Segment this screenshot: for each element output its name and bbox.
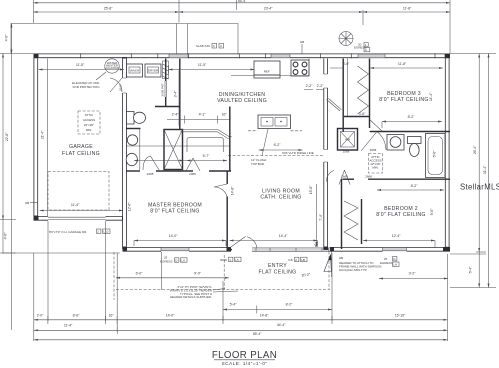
svg-text:11'-4": 11'-4" [429,92,433,101]
b2 rotated dim [430,208,434,215]
svg-text:DRYER: DRYER [148,69,159,73]
dim 9'-2" bedroom2 [379,272,448,280]
slab note tag [196,43,224,48]
svg-text:6'-2": 6'-2" [274,143,281,147]
svg-text:9'-2": 9'-2" [409,272,416,276]
wall: laundry/closet pocket wall [161,59,167,107]
window: top wall left (porch door) [169,54,188,58]
master bath: toilet [127,112,146,125]
b2 closet walls + zigzag [342,179,362,249]
pantry diagonal [327,99,342,112]
svg-text:14'-0": 14'-0" [166,314,175,318]
kitchen label [217,92,267,104]
exterior wall: top [34,53,451,58]
door hall closet 2068 [186,158,200,176]
svg-text:4'-1": 4'-1" [199,113,206,117]
door bedroom2 tag [339,170,372,185]
svg-text:L5: L5 [235,258,239,262]
svg-text:22"x30": 22"x30" [84,123,94,127]
dim row master bath y118 [167,113,230,124]
svg-text:ENTRY: ENTRY [268,263,287,269]
dim 11'-5" left [39,63,125,71]
svg-text:14'-8": 14'-8" [231,186,235,195]
svg-text:11'-8": 11'-8" [398,62,407,66]
linen closet with X [164,130,183,170]
garage door label [49,229,110,234]
svg-text:5'-7": 5'-7" [203,154,210,158]
garage room label [62,144,100,157]
svg-text:MIN.: MIN. [372,166,378,170]
svg-text:LA: LA [393,263,397,267]
sliding glass door: master [161,247,189,250]
svg-text:A: A [220,44,222,48]
svg-text:14'-0": 14'-0" [169,234,178,238]
svg-text:3'-4": 3'-4" [174,90,178,97]
attic access hall [369,154,383,174]
entry door tags [220,257,241,262]
vaulted ridge line dashed [228,131,324,156]
svg-text:VAULTED CEILING: VAULTED CEILING [217,98,267,104]
svg-text:LA: LA [181,258,185,262]
svg-text:16": 16" [222,113,228,117]
svg-text:2668 PKT: 2668 PKT [161,83,165,97]
svg-text:REF.: REF. [264,70,271,74]
svg-text:23'-4": 23'-4" [264,7,273,11]
svg-text:5'-4": 5'-4" [469,266,473,273]
svg-text:SLAB S10: SLAB S10 [196,44,210,48]
svg-text:GARAGE: GARAGE [69,144,93,150]
svg-text:55'-4": 55'-4" [238,0,247,3]
svg-text:12'-4": 12'-4" [392,234,401,238]
svg-text:8'0" FLAT CEILING: 8'0" FLAT CEILING [150,209,200,215]
svg-text:9'-6": 9'-6" [430,208,434,215]
master dim 12'-6" rotated [128,202,132,211]
svg-text:14'-4": 14'-4" [279,234,288,238]
garage attic access note [78,111,100,134]
entry label [259,263,297,276]
svg-text:11'-5": 11'-5" [198,63,207,67]
svg-text:WASH: WASH [130,69,139,73]
svg-text:ACCESS: ACCESS [83,118,95,122]
svg-text:1668: 1668 [341,175,348,179]
sliding door tags master [160,256,187,264]
svg-text:4'-0": 4'-0" [5,34,9,41]
garage front wall with OH door opening [34,217,127,219]
svg-text:CATH. CEILING: CATH. CEILING [260,195,301,201]
range / cooktop [291,60,309,76]
svg-text:HB: HB [300,40,304,44]
door bath2 from hall [361,132,386,153]
porch dashed slab edge [114,252,330,301]
svg-text:5'-4": 5'-4" [230,303,237,307]
svg-text:22'-8": 22'-8" [5,132,9,141]
svg-text:14'-8": 14'-8" [260,314,269,318]
extension lines bottom [34,221,448,341]
master bath: wall over vanity [126,128,141,130]
svg-text:LB: LB [301,258,305,262]
kitchen island with sink [258,115,291,129]
svg-text:2568: 2568 [343,150,350,154]
exterior wall: left (garage) [33,54,38,220]
exterior wall: right [445,54,450,252]
AC closet with X [338,129,358,154]
row1 overall [34,0,451,4]
front wall: master bedroom [123,247,232,252]
window tags bedroom2 [380,257,399,267]
refrigerator [254,61,280,78]
b3 closet bottom + dim [344,112,370,117]
circle-X symbol [339,31,353,45]
svg-text:12'-6": 12'-6" [128,202,132,211]
svg-text:2'-2": 2'-2" [306,84,313,88]
svg-text:26'-4": 26'-4" [473,145,477,154]
svg-text:TOP BAR: TOP BAR [251,162,265,166]
svg-text:11'-4": 11'-4" [71,203,80,207]
svg-text:55'-4": 55'-4" [253,332,262,336]
living width dim 14'-4" [230,234,318,247]
wall: bath2 top / bedroom3 bottom [370,131,450,133]
row1 [34,314,448,325]
window: bedroom2 front [383,247,407,250]
wall: garage / master bedroom [123,57,127,249]
svg-text:3'-6": 3'-6" [359,112,366,116]
svg-text:21'-4": 21'-4" [41,130,45,139]
door hall to living arc [326,171,334,182]
svg-text:8'-6": 8'-6" [73,314,80,318]
dim 11'-5" right [169,63,255,74]
svg-text:8'0"x7'0" O.H. GARAGE DR.: 8'0"x7'0" O.H. GARAGE DR. [49,230,87,234]
svg-text:MIN.: MIN. [86,128,92,132]
svg-text:L10: L10 [103,230,108,234]
svg-text:11'-8": 11'-8" [403,7,412,11]
svg-text:4'-6": 4'-6" [4,232,8,239]
svg-text:FOR PROTECTION: FOR PROTECTION [73,85,100,89]
svg-text:FLAT CEILING: FLAT CEILING [259,269,297,275]
b3 closet east wall [369,59,371,129]
master bedroom label [148,203,202,215]
front wall: bedroom2 [330,247,450,252]
svg-text:6X6 VLTD RIDGE LINE: 6X6 VLTD RIDGE LINE [282,151,313,155]
door master bath 2668 [143,156,159,176]
row2 segments [34,0,451,25]
row2 [34,323,448,334]
vanity b2 [387,135,404,151]
svg-text:6'-0": 6'-0" [136,272,143,276]
wall: hall top [155,106,180,108]
svg-text:A/H: A/H [345,138,350,142]
svg-text:31'-4": 31'-4" [483,165,487,174]
garage depth dim line 21'-4" [41,59,48,217]
hatched chase [163,61,169,79]
svg-text:HUCQ412-SDS TYP.: HUCQ412-SDS TYP. [339,268,367,272]
svg-text:2068: 2068 [189,172,196,176]
row3 overall [34,332,448,341]
front wall: entry (header) [229,243,330,251]
island dim 6'-2" [259,143,303,151]
window: kitchen top wall [271,54,290,58]
door bedroom3 [369,120,382,132]
20'-2" skewed [301,272,311,277]
master bath: vanity [126,129,140,171]
svg-text:8'0" FLAT CEILING: 8'0" FLAT CEILING [376,212,426,218]
svg-text:ATTIC: ATTIC [85,113,94,117]
svg-text:8'0" FLAT CEILING: 8'0" FLAT CEILING [379,97,429,103]
svg-text:HB: HB [25,201,29,205]
living rotated dims [309,184,318,246]
hose bib left wall [25,201,38,205]
svg-text:5'-6": 5'-6" [433,150,437,157]
svg-text:8'-2": 8'-2" [408,115,415,119]
laundry washer box [127,64,143,77]
svg-text:15'-10": 15'-10" [395,314,406,318]
svg-text:3'-0": 3'-0" [343,62,350,66]
svg-text:3-B: 3-B [288,258,293,262]
svg-text:2'-0": 2'-0" [37,314,44,318]
svg-text:SCALE: 1/4"=1'-0": SCALE: 1/4"=1'-0" [222,361,268,367]
svg-text:A: A [365,48,367,52]
wall: master right / entry [226,171,228,249]
counter front edge [231,59,309,76]
svg-text:3068: 3068 [220,258,227,262]
entry door with arc [230,237,258,249]
rotated dim right of master door [231,186,235,195]
svg-text:EGRESS: EGRESS [380,261,393,265]
wall: hall bottom / master top [126,170,231,172]
svg-text:2668: 2668 [147,172,154,176]
master width dim 14'-0" [134,234,226,246]
egress tag top right [354,43,370,53]
wall: central north-south [324,59,328,251]
porch dims 6'-0" 9'-0" [116,252,229,282]
b2 top dim 8'-2" [377,184,444,191]
svg-text:2668: 2668 [365,175,372,179]
svg-text:25'-8": 25'-8" [104,7,113,11]
svg-text:HEADER DETAILS SUPPLIED.: HEADER DETAILS SUPPLIED. [170,295,212,299]
wall: master closet right [179,59,181,130]
svg-text:2668: 2668 [370,148,377,152]
dim 5'-7" [127,146,231,162]
toilet b2 [408,137,422,157]
rear porch slab outline [11,24,238,54]
garage door dashed projection [48,172,109,211]
svg-text:15'-8": 15'-8" [309,185,313,194]
svg-text:7'-4": 7'-4" [319,213,323,220]
door garage entry 2668 [110,78,123,92]
svg-text:2'-2": 2'-2" [317,84,324,88]
extension lines top [34,0,451,54]
b3 dims top [330,62,443,69]
svg-text:2668: 2668 [119,84,123,91]
HB top [300,40,304,54]
svg-text:44'-4": 44'-4" [277,323,286,327]
svg-text:9'-0": 9'-0" [194,272,201,276]
cased opening dims 2'-2" [304,84,324,90]
elevated note + leader [72,72,106,89]
b3 dim 8'-2" [382,115,442,128]
post triangle at entry corner [324,255,331,272]
svg-text:HB: HB [339,256,343,260]
svg-text:8'-2": 8'-2" [286,303,293,307]
garage slab front line [2,252,120,254]
b2 width dim 12'-4" [363,234,435,247]
window: bedroom3 top wall [358,54,385,58]
water heater circle [104,59,119,73]
wall: hall east / b3 closet west [343,59,347,133]
tub b2 [426,134,446,178]
header note right of entry [339,256,381,272]
closet dim 3'-4" rotated [174,69,180,126]
svg-text:11'-5": 11'-5" [76,63,85,67]
porch post note [170,285,238,299]
svg-text:11'-4": 11'-4" [64,324,73,328]
wall: bath2 bottom [343,178,451,180]
flush top bar note [251,129,268,166]
svg-text:8'-2": 8'-2" [411,184,418,188]
nook bar wall [181,130,232,139]
svg-text:16": 16" [109,314,115,318]
svg-text:StellarMLS: StellarMLS [460,183,499,192]
svg-text:2'-4": 2'-4" [172,113,179,117]
shower gray outline [187,138,224,153]
svg-text:FLAT CEILING: FLAT CEILING [62,151,100,157]
b3 closet zigzag rod [358,66,369,114]
svg-text:EGRESS: EGRESS [160,260,173,264]
wall: kitchen west [229,107,231,172]
door master 2668 arc [214,184,227,197]
b3 rotated dims right [429,92,433,101]
row0 entry subdims [223,303,332,314]
garage interior width dim 11'-4" [40,203,123,212]
laundry dryer box [145,64,161,77]
svg-text:FLOOR PLAN: FLOOR PLAN [212,350,277,361]
top wall jamb ticks [81,53,435,58]
